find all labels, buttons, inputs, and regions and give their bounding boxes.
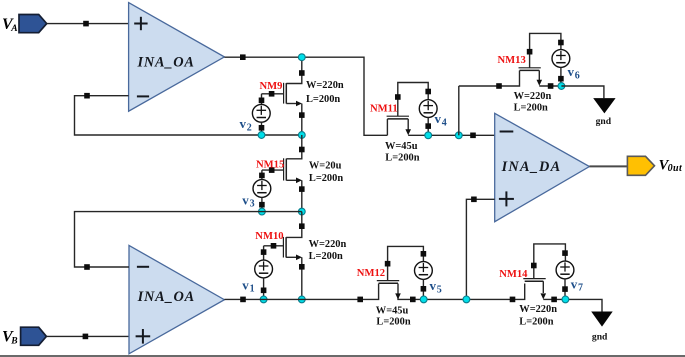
transistor NM15 (262, 135, 305, 212)
svg-text:7: 7 (578, 283, 583, 294)
transistor NM11 (387, 83, 429, 136)
wire U3 output (589, 165, 627, 167)
transistor NM14 (523, 244, 565, 300)
svg-text:W=220n: W=220n (309, 239, 347, 250)
svg-text:B: B (10, 336, 17, 346)
label v4 (435, 111, 447, 129)
voltage source v3 (253, 170, 271, 212)
svg-text:v: v (568, 64, 575, 79)
node chain junction A (298, 54, 305, 61)
svg-text:L=200n: L=200n (514, 103, 548, 114)
svg-text:3: 3 (250, 199, 255, 210)
svg-text:NM14: NM14 (499, 269, 528, 280)
svg-text:L=200n: L=200n (519, 316, 553, 327)
node v7 junction (562, 296, 569, 303)
svg-text:v: v (435, 111, 442, 126)
svg-text:W=220n: W=220n (306, 80, 344, 91)
svg-text:NM13: NM13 (498, 55, 526, 66)
transistor NM12 (377, 246, 424, 299)
svg-text:v: v (430, 278, 437, 293)
node v2 junction (258, 132, 265, 139)
voltage source v4 (419, 89, 437, 136)
wire U1 feedback to node v2 rail (75, 93, 302, 135)
svg-text:L=200n: L=200n (306, 94, 340, 105)
voltage source v6 (552, 40, 570, 86)
voltage source v1 (255, 246, 273, 300)
node chain junction B (298, 132, 305, 139)
svg-text:v: v (240, 116, 247, 131)
svg-text:W=45u: W=45u (385, 141, 418, 152)
svg-text:INA_OA: INA_OA (137, 289, 195, 305)
svg-text:gnd: gnd (596, 116, 612, 127)
svg-text:gnd: gnd (592, 332, 608, 343)
svg-text:L=200n: L=200n (309, 251, 343, 262)
svg-text:v: v (242, 193, 249, 208)
label v3 (242, 193, 254, 210)
wire U3 plus input from bottom rail (466, 197, 494, 300)
transistor NM13 (519, 33, 561, 85)
wire NM14 source to v7 node and gnd (543, 297, 602, 312)
svg-text:4: 4 (442, 118, 447, 129)
node chain junction C (298, 208, 305, 215)
op-amp U3 INA_DA (495, 113, 590, 221)
svg-text:L=200n: L=200n (376, 317, 410, 328)
node v4 junction (425, 132, 432, 139)
label v1 (242, 277, 254, 294)
node chain junction D (298, 296, 305, 303)
wire NM13 drain rail (459, 71, 520, 89)
label v5 (430, 278, 442, 296)
label v2 (240, 116, 252, 134)
op-amp U2 INA_OA (bottom) (129, 245, 224, 353)
voltage source v2 (252, 94, 270, 135)
svg-text:W=45u: W=45u (376, 305, 409, 316)
svg-text:W=220n: W=220n (519, 304, 557, 315)
node U3 minus junction (455, 132, 462, 139)
voltage source v5 (415, 251, 433, 299)
wire U1 output to top rail (224, 54, 387, 135)
port VB (2, 327, 46, 346)
node v3 junction (259, 208, 266, 215)
svg-text:1: 1 (250, 283, 255, 294)
svg-text:v: v (242, 277, 249, 292)
wire minus node up to NM13 rail (458, 86, 460, 135)
svg-text:2: 2 (247, 123, 252, 134)
wire bottom rail NM12 to NM14 (398, 284, 525, 303)
svg-text:NM9: NM9 (260, 81, 283, 92)
svg-text:L=200n: L=200n (309, 173, 343, 184)
svg-text:INA_OA: INA_OA (136, 55, 194, 71)
wire U2 output bottom rail (224, 284, 378, 303)
wire v6 node to gnd (561, 86, 604, 98)
node U3 plus junction (463, 296, 470, 303)
svg-text:W=220n: W=220n (514, 91, 552, 102)
svg-text:0ut: 0ut (668, 163, 683, 174)
wire NM13 source to v6 node (539, 83, 561, 89)
node v6 junction (558, 83, 565, 90)
svg-text:NM12: NM12 (357, 268, 385, 279)
svg-text:NM11: NM11 (370, 103, 398, 114)
svg-text:A: A (10, 24, 17, 34)
svg-text:6: 6 (575, 71, 580, 82)
ground (bottom) (591, 312, 613, 343)
wire U2 feedback to node v3 rail (75, 212, 302, 270)
node v1 junction (260, 296, 267, 303)
port V0ut (627, 156, 683, 175)
svg-text:NM10: NM10 (255, 231, 283, 242)
node v5 junction (420, 296, 427, 303)
transistor NM10 (264, 212, 305, 300)
op-amp U1 INA_OA (top) (129, 3, 225, 112)
wire VA to U1 plus input (47, 21, 129, 27)
voltage source v7 (556, 250, 574, 299)
wire VB to U2 plus input (46, 334, 129, 340)
wire NM11 source rail to U3 minus (408, 133, 495, 139)
transistor NM9 (262, 57, 305, 135)
svg-text:W=20u: W=20u (309, 160, 342, 171)
label v7 (571, 276, 583, 293)
svg-text:L=200n: L=200n (385, 153, 419, 164)
svg-text:v: v (571, 276, 578, 291)
svg-text:5: 5 (437, 285, 442, 296)
label v6 (568, 64, 580, 82)
ground (top) (593, 98, 615, 127)
svg-text:INA_DA: INA_DA (501, 159, 562, 175)
port VA (2, 15, 47, 34)
svg-text:NM15: NM15 (256, 159, 284, 170)
